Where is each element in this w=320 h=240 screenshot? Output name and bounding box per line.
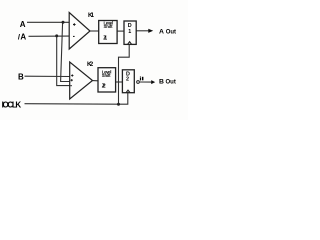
svg-text:Shift: Shift: [104, 24, 114, 29]
op-amp K2: [70, 62, 93, 99]
svg-text:A: A: [20, 32, 26, 41]
svg-text:B: B: [159, 79, 164, 86]
svg-text:Shift: Shift: [102, 73, 111, 78]
svg-text:2: 2: [126, 76, 129, 82]
K2 middle input mark: [71, 79, 73, 81]
svg-text:B: B: [18, 72, 24, 81]
K1 plus input mark: [73, 23, 76, 26]
wire /A input: [29, 35, 70, 37]
svg-text:Out: Out: [166, 80, 176, 86]
wire A tap to K2 middle input: [61, 22, 70, 81]
K1 minus input mark: [73, 36, 75, 37]
K2 bottom input mark: [70, 85, 72, 86]
svg-text:A: A: [159, 29, 164, 36]
D2 output label j1: [140, 77, 144, 81]
arrow to A Out: [148, 29, 153, 33]
level shifter Z1: [99, 21, 117, 44]
svg-text:K2: K2: [87, 61, 94, 68]
wire IOCLK to D1 clock: [119, 44, 130, 104]
svg-text:K1: K1: [88, 12, 95, 19]
svg-text:A: A: [20, 20, 26, 29]
wire K2 output to Z2: [93, 80, 99, 82]
svg-text:IOCLK: IOCLK: [2, 100, 22, 109]
wire IOCLK: [25, 103, 119, 106]
wire D2 output: [140, 81, 152, 83]
wire Z2 to D2: [116, 81, 123, 83]
wire D1 output: [136, 30, 149, 32]
node /A tap junction: [55, 34, 58, 37]
flip-flop D1: [124, 21, 136, 44]
op-amp K1: [69, 13, 90, 50]
wire B input: [25, 75, 70, 77]
wire A input: [27, 21, 69, 23]
wire K1 output to Z1: [90, 30, 99, 32]
wire IOCLK to D2 clock: [119, 93, 128, 105]
D1 clock triangle: [128, 42, 132, 45]
K2 top input mark: [71, 74, 73, 76]
level shifter Z2: [98, 68, 116, 92]
svg-text:Z2: Z2: [102, 83, 106, 89]
D2 clock triangle: [126, 90, 130, 92]
node A tap junction: [62, 21, 65, 24]
svg-text:1: 1: [128, 29, 131, 35]
node IOCLK junction: [117, 103, 120, 106]
D2 inverting output bubble: [137, 81, 140, 84]
arrow to B Out: [151, 80, 155, 84]
wire Z1 to D1: [117, 30, 124, 32]
svg-text:Out: Out: [166, 30, 176, 36]
svg-text:Z1: Z1: [103, 35, 107, 41]
flip-flop D2: [122, 70, 134, 93]
wire /A tap to K2 bottom input: [57, 36, 70, 86]
